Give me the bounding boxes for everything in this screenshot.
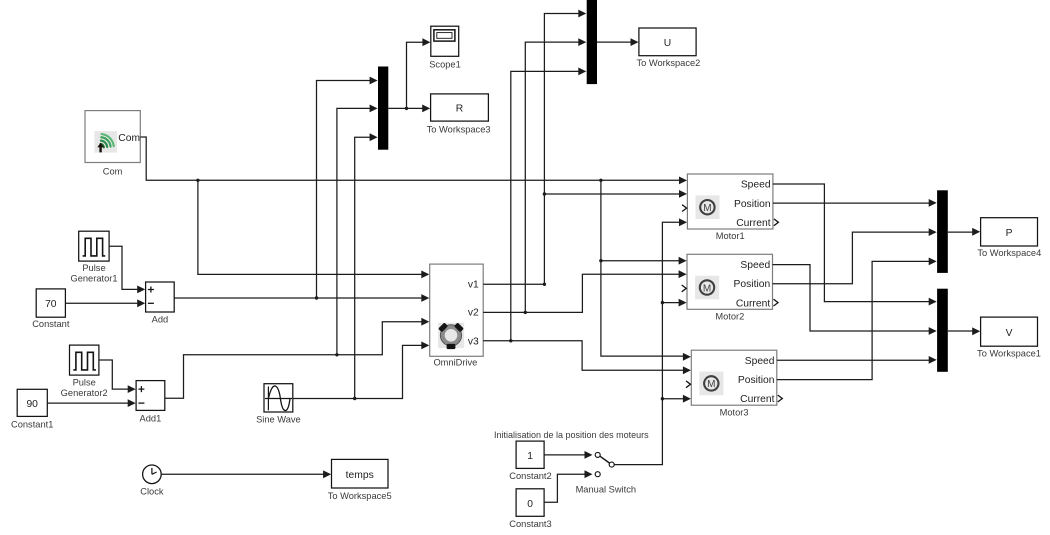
- block V To Workspace1: [977, 317, 1041, 358]
- wire Add1 tee to Mux1 in2: [337, 105, 378, 355]
- svg-text:Manual Switch: Manual Switch: [576, 484, 636, 494]
- junction node v1 corner: [543, 283, 546, 286]
- subsystem block Motor1: [682, 174, 778, 241]
- wire Constant2 to Manual Switch in1: [544, 451, 592, 459]
- svg-text:Generator2: Generator2: [61, 388, 108, 398]
- svg-text:R: R: [456, 104, 463, 115]
- svg-text:OmniDrive: OmniDrive: [433, 357, 477, 367]
- svg-text:Sine Wave: Sine Wave: [256, 415, 301, 425]
- switch block Manual Switch: [576, 452, 636, 494]
- wire Com branch to Motor2 in1: [601, 257, 687, 265]
- svg-text:Constant: Constant: [32, 319, 70, 329]
- wire Mux1 tee to Scope1: [407, 38, 431, 108]
- wire Motor3 Speed to Mux4 in3: [777, 356, 937, 364]
- wire Mux3 to P: [948, 228, 980, 236]
- wire v1 to Mux2 in1: [544, 10, 586, 285]
- svg-text:Motor1: Motor1: [716, 231, 745, 241]
- wire Pulse Generator2 to Add1 in1: [99, 360, 136, 393]
- svg-text:Current: Current: [736, 218, 770, 229]
- svg-text:Scope1: Scope1: [429, 59, 461, 69]
- wire Com to Motor1 in1: [140, 137, 687, 184]
- wire Pulse Generator1 to Add in1: [109, 246, 145, 293]
- svg-text:U: U: [664, 38, 671, 49]
- mux Mux3 (P): [937, 190, 948, 273]
- junction node switch-Motor2: [661, 301, 664, 304]
- wire Motor1 Speed to Mux4 in1: [773, 184, 937, 306]
- svg-text:Motor3: Motor3: [720, 407, 749, 417]
- svg-text:To Workspace1: To Workspace1: [977, 349, 1041, 359]
- wire Manual Switch to motors in4: [614, 218, 687, 464]
- svg-text:Motor2: Motor2: [715, 312, 744, 322]
- sum block Add1: [136, 381, 165, 424]
- svg-text:Current: Current: [740, 394, 774, 405]
- scope block Scope1: [429, 26, 461, 69]
- wire Motor1 Position to Mux3 in1: [773, 199, 937, 207]
- wire Sine Wave to OmniDrive in4: [293, 342, 430, 399]
- svg-text:To Workspace2: To Workspace2: [636, 58, 700, 68]
- svg-text:Speed: Speed: [745, 356, 775, 367]
- annotation text: [494, 430, 649, 440]
- svg-text:Position: Position: [734, 199, 771, 210]
- svg-text:Pulse: Pulse: [82, 263, 105, 273]
- junction node Com-Motor2: [599, 259, 602, 262]
- svg-text:v3: v3: [468, 336, 479, 347]
- svg-text:P: P: [1006, 228, 1013, 239]
- wire Mux4 to V: [948, 327, 980, 335]
- svg-text:M: M: [707, 379, 715, 390]
- subsystem block Com: [85, 111, 140, 177]
- svg-text:Add: Add: [152, 314, 169, 324]
- svg-text:Speed: Speed: [740, 260, 770, 271]
- source block Pulse Generator2: [61, 345, 108, 398]
- constant block Constant3 0: [509, 489, 551, 529]
- wire Motor3 Position to Mux3 in3: [777, 258, 937, 380]
- junction node v2 tee: [524, 311, 527, 314]
- wire OmniDrive v2 to Motor2 in2: [483, 270, 686, 312]
- wire v2 tee to Mux2 in2: [525, 38, 586, 312]
- wire Mux2 to U: [597, 38, 639, 46]
- svg-text:Add1: Add1: [140, 413, 162, 423]
- source block Sine Wave: [256, 384, 301, 425]
- wire switch branch to Motor2 in4: [662, 299, 686, 307]
- wire v3 tee to Mux2 in3: [511, 68, 587, 341]
- wire Motor2 Speed to Mux4 in2: [773, 265, 937, 335]
- wire OmniDrive v3 to Motor3 in2: [483, 341, 691, 374]
- wire OmniDrive v1 east: [483, 283, 544, 285]
- wire Add1 to OmniDrive in3: [165, 318, 430, 398]
- junction node Sine tee: [353, 397, 356, 400]
- wire Com branch to Motor2/Motor3 in1: [601, 180, 691, 360]
- svg-text:Initialisation de la position: Initialisation de la position des moteur…: [494, 430, 649, 440]
- junction node Add1 tee: [335, 353, 338, 356]
- constant block Constant 70: [32, 289, 70, 329]
- subsystem block Motor3: [686, 350, 782, 417]
- wire Add to OmniDrive in2: [174, 294, 429, 302]
- svg-text:70: 70: [45, 299, 57, 310]
- mux Mux1: [378, 67, 388, 150]
- wire Add tee to Mux1 in1: [317, 77, 378, 298]
- wire Constant 70 to Add in2: [65, 299, 145, 307]
- wire v1 to Motor1 in2: [544, 190, 687, 198]
- constant block Constant1 90: [11, 389, 53, 429]
- svg-text:Position: Position: [734, 279, 771, 290]
- wire Constant3 to Manual Switch in2: [544, 470, 592, 502]
- svg-text:Constant2: Constant2: [509, 471, 551, 481]
- junction node v1-Motor1: [543, 192, 546, 195]
- svg-text:Generator1: Generator1: [70, 274, 117, 284]
- sum block Add: [146, 282, 175, 324]
- block U To Workspace2: [636, 28, 700, 68]
- svg-text:To Workspace3: To Workspace3: [427, 124, 491, 134]
- svg-text:Clock: Clock: [140, 487, 164, 497]
- source block Clock: [140, 465, 164, 497]
- svg-text:temps: temps: [346, 470, 374, 481]
- wire Mux1 to R: [388, 105, 430, 113]
- svg-text:Speed: Speed: [741, 180, 771, 191]
- svg-text:90: 90: [26, 399, 38, 410]
- junction node switch-Motor3: [661, 397, 664, 400]
- svg-text:To Workspace5: To Workspace5: [328, 491, 392, 501]
- wire Com branch to OmniDrive in1: [198, 180, 429, 278]
- block P To Workspace4: [977, 218, 1041, 259]
- constant block Constant2 1: [509, 441, 551, 481]
- svg-text:1: 1: [527, 451, 533, 462]
- wire Motor2 Position to Mux3 in2: [773, 228, 937, 284]
- svg-text:Constant3: Constant3: [509, 519, 551, 529]
- junction node Add output tee: [315, 296, 318, 299]
- mux Mux2: [587, 0, 597, 84]
- svg-text:v1: v1: [468, 280, 479, 291]
- svg-text:Current: Current: [736, 298, 770, 309]
- wire switch branch to Motor3 in4: [662, 395, 691, 403]
- svg-text:Constant1: Constant1: [11, 420, 53, 430]
- wire Sine tee to Mux1 in3: [355, 133, 378, 398]
- svg-text:Com: Com: [103, 166, 123, 176]
- svg-text:M: M: [703, 203, 711, 214]
- svg-text:To Workspace4: To Workspace4: [977, 248, 1041, 258]
- junction node on Com wire at x198: [196, 179, 199, 182]
- svg-text:0: 0: [527, 499, 533, 510]
- subsystem block OmniDrive: [430, 264, 484, 367]
- svg-text:Pulse: Pulse: [73, 378, 96, 388]
- svg-text:Position: Position: [738, 375, 775, 386]
- junction node on Com wire at x601: [599, 179, 602, 182]
- svg-text:M: M: [703, 283, 711, 294]
- subsystem block Motor2: [682, 254, 778, 321]
- block temps To Workspace5: [328, 459, 392, 500]
- svg-text:Com: Com: [118, 133, 140, 144]
- source block Pulse Generator1: [70, 231, 117, 283]
- junction node Mux1 output tee: [405, 107, 408, 110]
- wire Constant1 90 to Add1 in2: [47, 399, 135, 407]
- mux Mux4 (V): [937, 289, 948, 372]
- junction node v3 tee: [509, 339, 512, 342]
- wire Clock to temps: [161, 470, 331, 478]
- block R To Workspace3: [427, 94, 491, 134]
- svg-text:V: V: [1006, 328, 1013, 339]
- svg-text:v2: v2: [468, 308, 479, 319]
